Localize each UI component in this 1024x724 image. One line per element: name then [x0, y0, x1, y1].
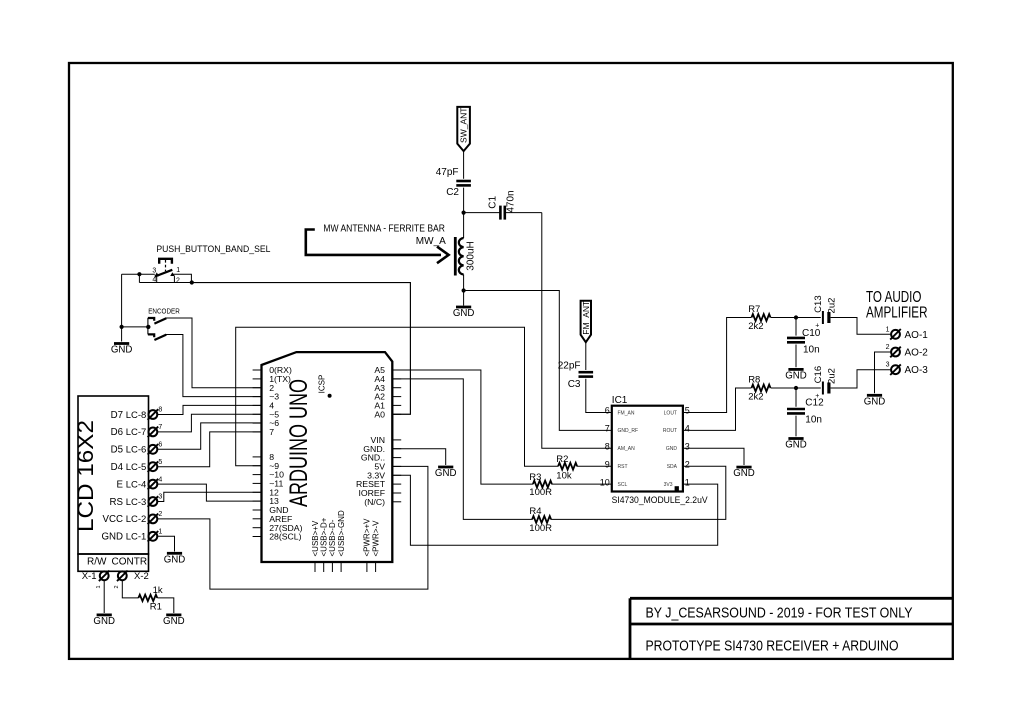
svg-text:LC-5: LC-5 — [126, 462, 147, 473]
svg-text:D7: D7 — [111, 410, 123, 421]
svg-text:IC1: IC1 — [612, 395, 628, 406]
svg-text:C16: C16 — [813, 366, 824, 383]
svg-text:GND: GND — [733, 468, 755, 479]
svg-text:SW_ANT: SW_ANT — [459, 108, 469, 143]
svg-text:3: 3 — [152, 267, 156, 274]
svg-text:7: 7 — [158, 424, 162, 431]
svg-text:SDA: SDA — [667, 464, 678, 470]
svg-text:2: 2 — [176, 277, 180, 284]
svg-text:1k: 1k — [153, 585, 163, 596]
svg-text:LC-6: LC-6 — [126, 445, 147, 456]
svg-text:GND_RF: GND_RF — [618, 428, 639, 434]
svg-text:AMPLIFIER: AMPLIFIER — [866, 305, 928, 322]
svg-text:SI4730_MODULE_2.2uV: SI4730_MODULE_2.2uV — [612, 495, 709, 506]
svg-text:5: 5 — [158, 459, 162, 466]
svg-text:A0: A0 — [374, 409, 385, 419]
svg-text:GND: GND — [453, 308, 475, 319]
svg-text:2u2: 2u2 — [827, 298, 838, 314]
svg-text:4: 4 — [685, 424, 690, 434]
svg-text:LC-8: LC-8 — [126, 410, 147, 421]
svg-text:100R: 100R — [529, 487, 552, 498]
svg-text:D6: D6 — [111, 427, 123, 438]
svg-text:GND: GND — [93, 616, 115, 627]
svg-text:ICSP: ICSP — [318, 375, 327, 394]
svg-text:X-1: X-1 — [82, 571, 97, 582]
svg-text:ROUT: ROUT — [663, 428, 677, 434]
svg-text:2u2: 2u2 — [827, 368, 838, 384]
svg-text:1: 1 — [158, 529, 162, 536]
svg-text:AM_AN: AM_AN — [618, 446, 636, 452]
svg-text:1: 1 — [176, 267, 180, 274]
svg-text:LC-3: LC-3 — [126, 497, 147, 508]
svg-text:R7: R7 — [748, 304, 760, 315]
svg-text:GND: GND — [785, 440, 807, 451]
svg-text:LC-2: LC-2 — [126, 514, 147, 525]
svg-text:<USB>+V: <USB>+V — [311, 520, 320, 556]
svg-text:GND: GND — [864, 396, 886, 407]
svg-text:3: 3 — [886, 362, 890, 369]
svg-text:<PWR>+V: <PWR>+V — [363, 518, 372, 557]
svg-text:GND: GND — [111, 345, 133, 356]
svg-text:6: 6 — [605, 406, 610, 416]
svg-text:GND: GND — [435, 468, 457, 479]
svg-text:9: 9 — [605, 459, 610, 469]
svg-text:D5: D5 — [111, 445, 123, 456]
svg-text:GND: GND — [163, 616, 185, 627]
svg-text:3: 3 — [158, 494, 162, 501]
svg-text:RS: RS — [110, 497, 124, 508]
svg-text:MW ANTENNA - FERRITE BAR: MW ANTENNA - FERRITE BAR — [323, 223, 445, 234]
svg-text:7: 7 — [605, 424, 610, 434]
svg-text:<USB>-D-: <USB>-D- — [328, 519, 337, 556]
svg-text:GND: GND — [101, 532, 123, 543]
svg-text:R3: R3 — [529, 472, 541, 483]
svg-text:ENCODER: ENCODER — [148, 306, 180, 315]
svg-text:10k: 10k — [556, 471, 572, 482]
svg-text:2: 2 — [158, 511, 162, 518]
svg-text:3: 3 — [685, 442, 690, 452]
svg-text:5: 5 — [685, 406, 690, 416]
svg-text:C1: C1 — [487, 195, 498, 208]
svg-text:GND: GND — [785, 370, 807, 381]
svg-text:RST: RST — [618, 464, 628, 470]
svg-text:<PWR>-V: <PWR>-V — [371, 520, 380, 557]
svg-text:2: 2 — [886, 344, 890, 351]
svg-text:10n: 10n — [805, 415, 822, 426]
svg-text:2k2: 2k2 — [748, 391, 763, 402]
svg-text:SCL: SCL — [618, 482, 628, 488]
svg-text:GND: GND — [164, 554, 186, 565]
svg-text:FM_ANT: FM_ANT — [581, 301, 591, 335]
svg-text:D4: D4 — [111, 462, 124, 473]
svg-text:R1: R1 — [150, 602, 162, 613]
svg-text:LC-4: LC-4 — [126, 479, 147, 490]
svg-text:R/W: R/W — [87, 556, 107, 567]
svg-text:BY J_CESARSOUND - 2019 - FOR: BY J_CESARSOUND - 2019 - FOR TEST ONLY — [646, 605, 913, 622]
svg-text:C12: C12 — [805, 398, 824, 409]
svg-text:4: 4 — [158, 476, 162, 483]
svg-text:LCD 16X2: LCD 16X2 — [73, 420, 98, 532]
svg-text:X-2: X-2 — [134, 571, 149, 582]
svg-text:R4: R4 — [529, 506, 541, 517]
svg-text:2: 2 — [685, 459, 690, 469]
svg-text:AO-3: AO-3 — [905, 365, 929, 376]
svg-text:TO AUDIO: TO AUDIO — [866, 289, 922, 306]
svg-text:6: 6 — [158, 442, 162, 449]
svg-text:VCC: VCC — [103, 514, 123, 525]
svg-text:1: 1 — [685, 477, 690, 487]
svg-text:CONTR: CONTR — [112, 556, 148, 567]
svg-text:PROTOTYPE SI4730 RECEIVER + AR: PROTOTYPE SI4730 RECEIVER + ARDUINO — [646, 638, 899, 655]
svg-text:AO-2: AO-2 — [905, 348, 929, 359]
svg-text:ARDUINO UNO: ARDUINO UNO — [285, 379, 313, 507]
svg-text:C2: C2 — [446, 187, 459, 198]
svg-text:LC-1: LC-1 — [126, 532, 147, 543]
svg-text:C10: C10 — [802, 328, 821, 339]
svg-text:<USB>-D+: <USB>-D+ — [320, 517, 329, 556]
svg-text:LC-7: LC-7 — [126, 427, 147, 438]
svg-text:8: 8 — [605, 442, 610, 452]
svg-text:1: 1 — [886, 326, 890, 333]
svg-text:1: 1 — [96, 585, 102, 588]
svg-text:PUSH_BUTTON_BAND_SEL: PUSH_BUTTON_BAND_SEL — [156, 244, 271, 255]
svg-text:10: 10 — [600, 477, 610, 487]
svg-text:C3: C3 — [568, 379, 581, 390]
svg-text:300uH: 300uH — [466, 241, 477, 270]
svg-text:GND: GND — [666, 446, 678, 452]
svg-text:8: 8 — [158, 407, 162, 414]
svg-text:(N/C): (N/C) — [364, 497, 385, 507]
svg-text:AO-1: AO-1 — [905, 330, 929, 341]
svg-text:<USB>-GND: <USB>-GND — [337, 510, 346, 556]
svg-text:3V3: 3V3 — [664, 482, 673, 488]
svg-text:C13: C13 — [813, 295, 824, 312]
svg-text:R8: R8 — [748, 375, 760, 386]
svg-text:10n: 10n — [803, 344, 820, 355]
svg-text:22pF: 22pF — [558, 361, 581, 372]
svg-text:R2: R2 — [556, 454, 568, 465]
svg-text:100R: 100R — [529, 523, 552, 534]
svg-text:MW_A: MW_A — [416, 236, 446, 247]
svg-text:E: E — [117, 479, 124, 490]
svg-text:47pF: 47pF — [436, 167, 459, 178]
svg-text:LOUT: LOUT — [664, 410, 677, 416]
svg-text:2k2: 2k2 — [748, 321, 763, 332]
svg-text:470n: 470n — [506, 190, 517, 212]
svg-text:FM_AN: FM_AN — [618, 410, 635, 416]
svg-text:28(SCL): 28(SCL) — [269, 532, 301, 542]
svg-text:2: 2 — [114, 585, 120, 588]
svg-text:7: 7 — [269, 427, 274, 437]
